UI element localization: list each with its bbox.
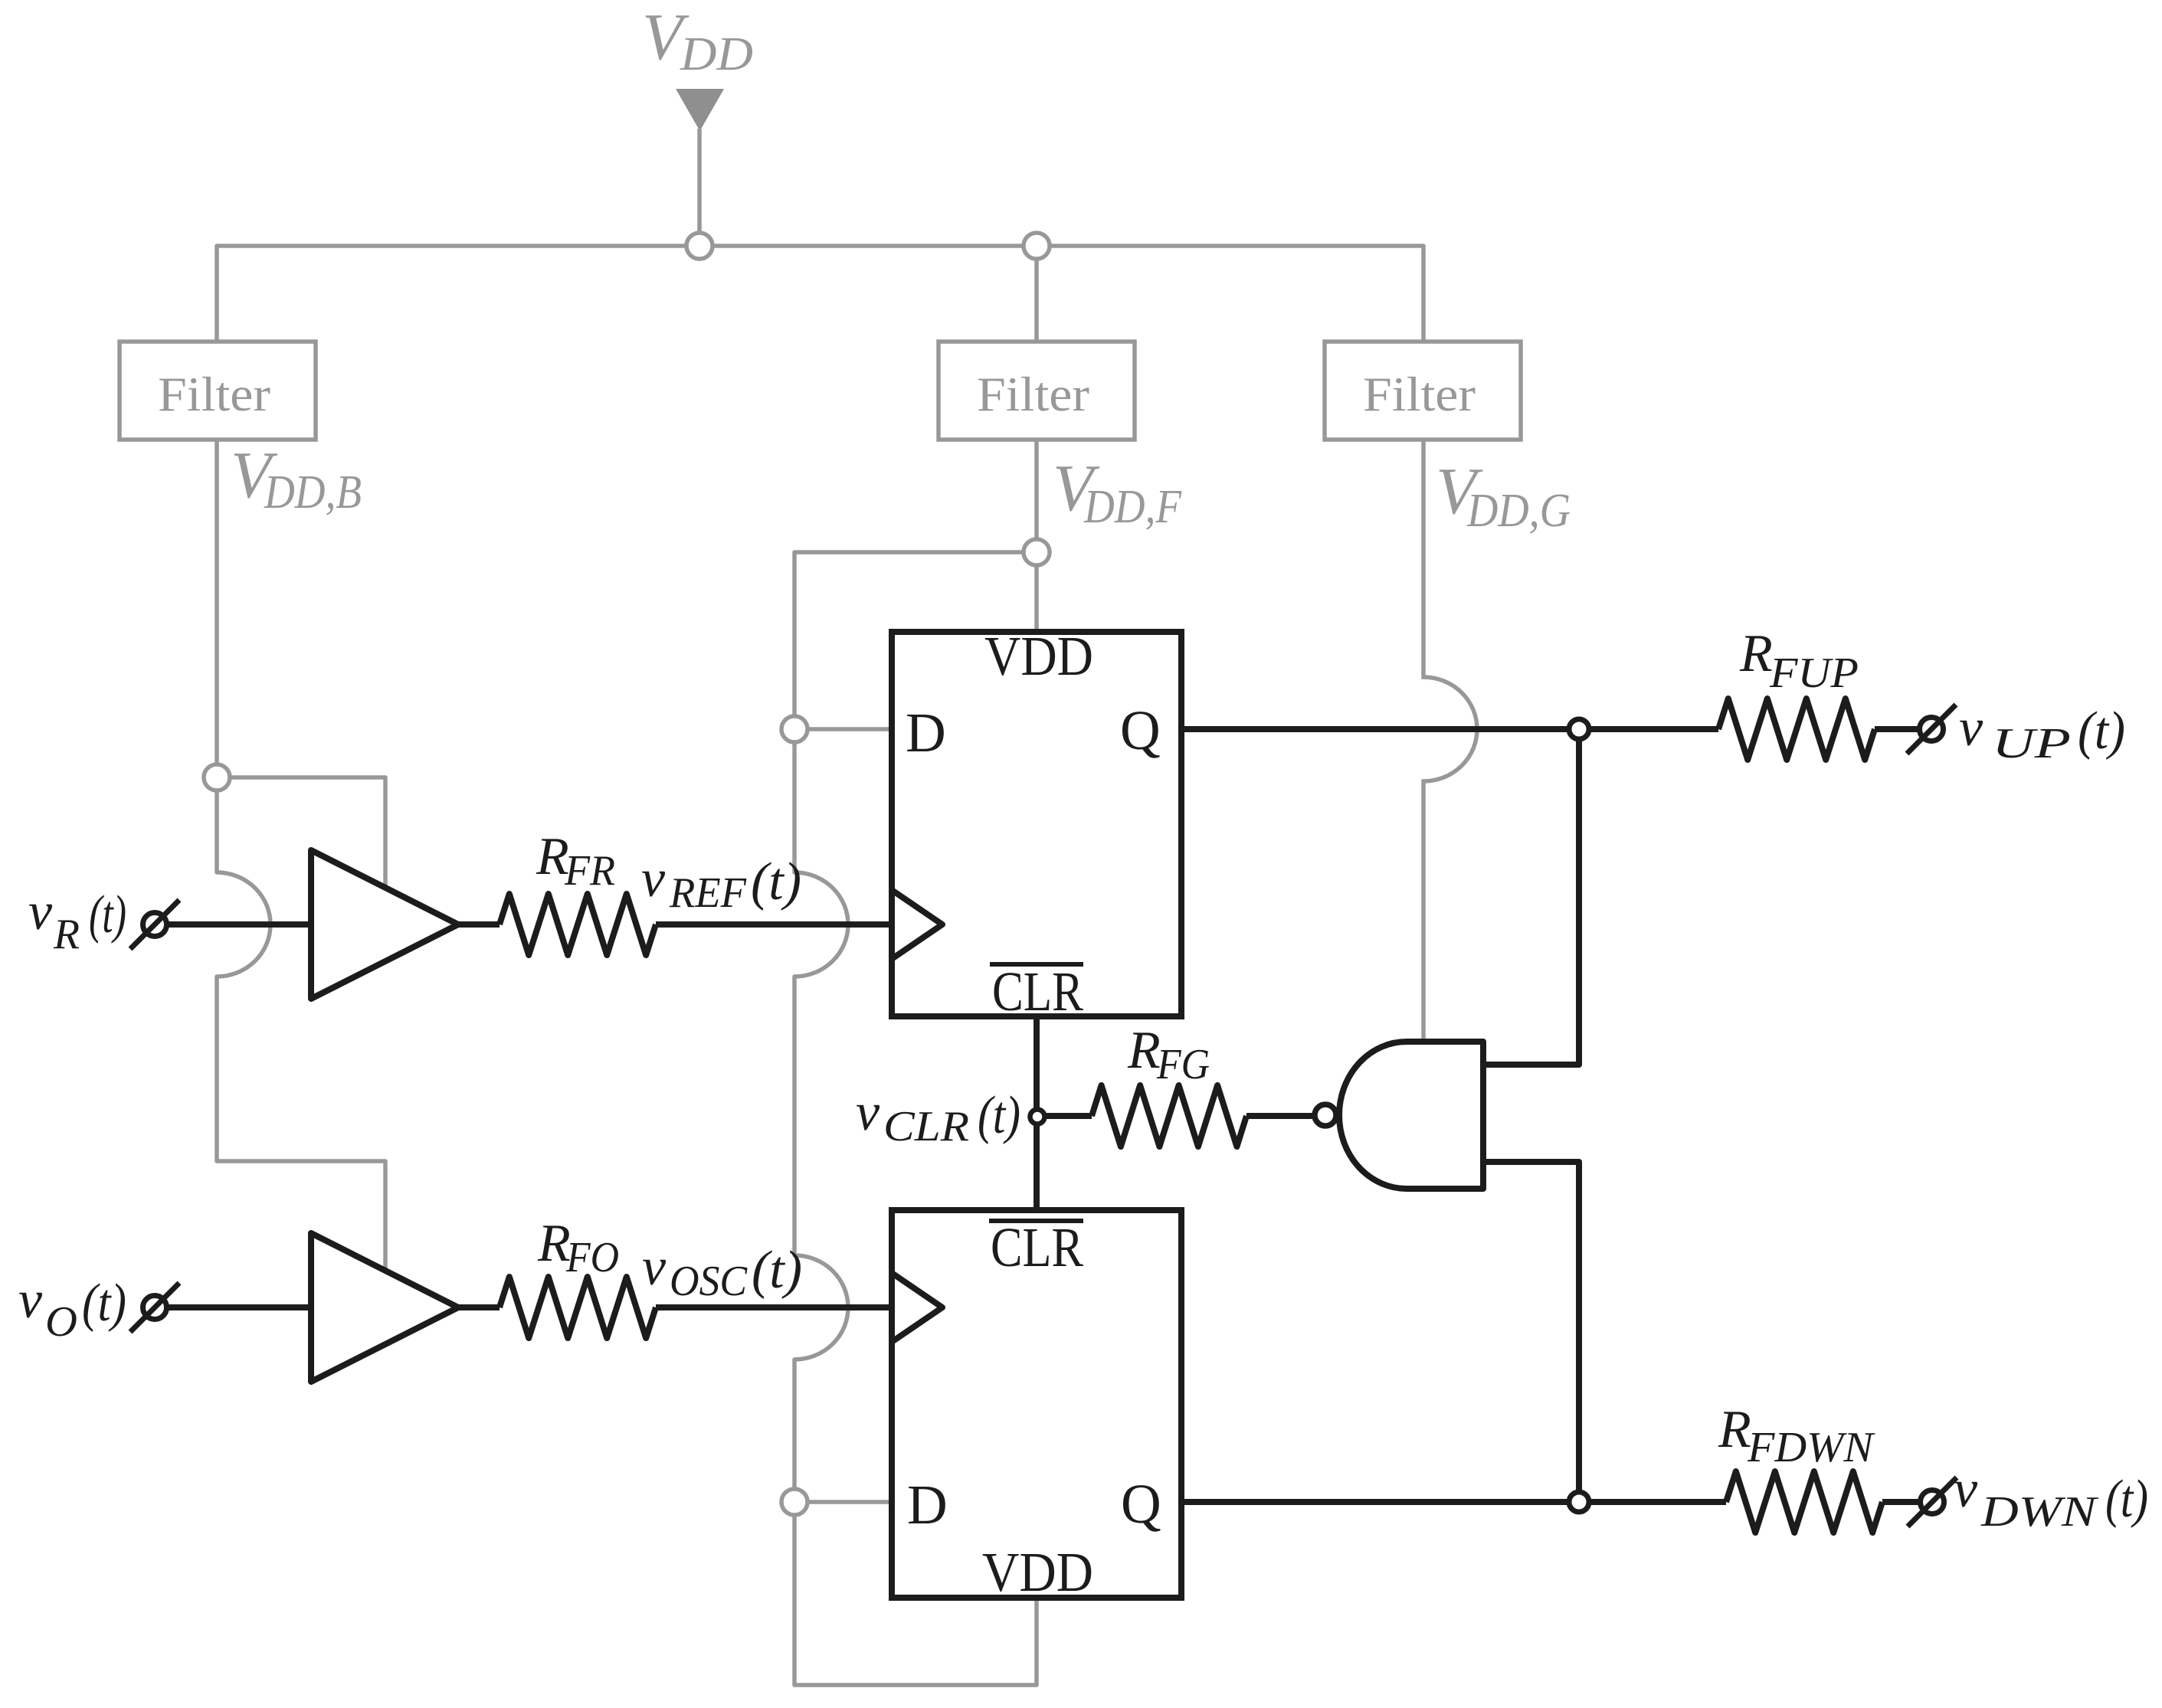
svg-text:(t): (t)	[751, 852, 801, 911]
svg-text:Filter: Filter	[158, 367, 270, 421]
NAND output bubble	[1315, 1104, 1336, 1126]
junction (gray net)	[686, 233, 712, 259]
filter block Filter1	[120, 342, 316, 440]
resistor RFR	[500, 894, 656, 955]
wire vOSC to FF2 clock	[656, 1304, 892, 1310]
svg-text:DD: DD	[680, 28, 753, 80]
wire FF2 D pin feed	[794, 1500, 892, 1504]
wire Q2 from FF2 to node	[1181, 1499, 1726, 1505]
svg-text:v: v	[18, 1271, 43, 1330]
wire RFDWN to vDWN terminal	[1882, 1499, 1919, 1505]
wire buffer U1 output	[458, 921, 500, 928]
resistor RFO	[500, 1277, 656, 1338]
svg-text:CLR: CLR	[992, 960, 1083, 1023]
svg-text:R: R	[1739, 624, 1773, 683]
wire VDD,F column (Filter2 to FF1 VDD pin)	[1034, 440, 1039, 632]
junction (gray net)	[1024, 539, 1050, 565]
svg-text:R: R	[1127, 1021, 1161, 1080]
svg-text:(t): (t)	[2105, 1470, 2148, 1529]
svg-text:FO: FO	[565, 1234, 619, 1281]
svg-text:REF: REF	[669, 869, 747, 917]
svg-text:O: O	[45, 1298, 77, 1346]
svg-text:DD,F: DD,F	[1083, 481, 1182, 533]
wire vREF to FF1 clock	[656, 921, 892, 928]
svg-text:D: D	[907, 1474, 948, 1536]
svg-text:v: v	[1954, 1460, 1978, 1519]
svg-text:VDD: VDD	[982, 1541, 1093, 1603]
svg-text:R: R	[53, 911, 80, 958]
wire FF1 CLR to FF2 CLR (vCLR node)	[1034, 1016, 1040, 1210]
junction vCLR	[1030, 1110, 1045, 1124]
svg-text:DWN: DWN	[1980, 1488, 2098, 1536]
svg-text:v: v	[641, 849, 666, 908]
junction (gray net)	[781, 716, 807, 742]
buffer U2 (oscillator input)	[311, 1233, 458, 1382]
clock chevron (U3)	[892, 890, 942, 959]
svg-text:FR: FR	[564, 847, 615, 895]
wire buffer U1 power drop	[217, 777, 385, 888]
terminal vR(t)	[143, 913, 167, 937]
svg-text:v: v	[28, 882, 53, 941]
junction (gray net)	[1024, 233, 1050, 259]
svg-text:(t): (t)	[978, 1086, 1020, 1145]
wire NAND top input from Q1 node	[1483, 729, 1579, 1065]
wire RFUP to vUP terminal	[1875, 726, 1918, 732]
wire Filter2 feed	[1034, 246, 1039, 342]
svg-text:D: D	[906, 702, 946, 764]
svg-text:R: R	[1718, 1400, 1751, 1459]
svg-text:CLR: CLR	[991, 1216, 1083, 1278]
clock chevron (U4)	[892, 1273, 942, 1342]
svg-text:FG: FG	[1156, 1041, 1210, 1088]
svg-text:(t): (t)	[89, 885, 126, 944]
terminal vO(t)	[143, 1296, 167, 1320]
wire Q1 from FF1 to node	[1181, 726, 1718, 732]
svg-text:Q: Q	[1120, 699, 1161, 761]
wire VDD,G column (Filter3 down to NAND power, hop over Q1 wire)	[1423, 439, 1477, 1042]
svg-text:Q: Q	[1121, 1473, 1161, 1535]
svg-text:Filter: Filter	[1363, 367, 1476, 421]
svg-text:FDWN: FDWN	[1747, 1424, 1875, 1471]
svg-text:DD,G: DD,G	[1466, 485, 1571, 537]
wire vR to buffer U1	[168, 921, 311, 928]
resistor RFUP	[1718, 699, 1875, 760]
svg-text:VDD: VDD	[984, 625, 1093, 687]
svg-text:(t): (t)	[2078, 702, 2125, 761]
svg-text:DD,B: DD,B	[264, 466, 362, 519]
filter block Filter2	[939, 342, 1135, 440]
svg-text:Filter: Filter	[977, 367, 1089, 421]
terminal vUP(t)	[1920, 718, 1944, 741]
flip-flop U4 (down FF) box	[892, 1210, 1181, 1598]
wire VDD,B column (Filter1 down to buffers, hop over vR wire)	[217, 440, 385, 1271]
svg-text:(t): (t)	[752, 1241, 802, 1300]
filter block Filter3	[1325, 342, 1521, 440]
power symbol VDD (supply triangle)	[676, 89, 724, 131]
svg-text:UP: UP	[1992, 720, 2071, 767]
wire vCLR to RFG	[1037, 1113, 1092, 1119]
resistor RFG	[1092, 1085, 1246, 1147]
svg-text:v: v	[642, 1238, 667, 1297]
wire NAND bottom input from Q2 node	[1483, 1162, 1579, 1502]
svg-text:FUP: FUP	[1769, 649, 1859, 697]
terminal vDWN(t)	[1921, 1490, 1944, 1514]
svg-text:v: v	[1959, 699, 1983, 757]
junction (gray net)	[781, 1489, 807, 1515]
buffer U1 (reference input)	[311, 850, 458, 999]
wire VDD top bus	[217, 246, 1423, 342]
junction Q2 node	[1569, 1492, 1589, 1512]
wire FF1 D pin feed	[794, 727, 892, 731]
wire RFG to NAND bubble	[1246, 1113, 1312, 1119]
svg-text:CLR: CLR	[883, 1103, 969, 1150]
svg-text:OSC: OSC	[670, 1258, 748, 1305]
wire buffer U2 output	[458, 1304, 500, 1310]
wire VDD,F distribution (hops over vREF and vOSC wires, to FF2 VDD)	[794, 552, 1037, 1685]
resistor RFDWN	[1726, 1471, 1882, 1533]
NAND gate U5 (mirrored, output on left)	[1339, 1042, 1483, 1189]
junction (gray net)	[204, 764, 230, 790]
flip-flop U3 (up FF) box	[892, 632, 1181, 1016]
junction Q1 node	[1569, 719, 1589, 739]
svg-text:v: v	[856, 1083, 880, 1142]
svg-text:(t): (t)	[82, 1274, 126, 1333]
wire vO to buffer U2	[168, 1304, 311, 1310]
